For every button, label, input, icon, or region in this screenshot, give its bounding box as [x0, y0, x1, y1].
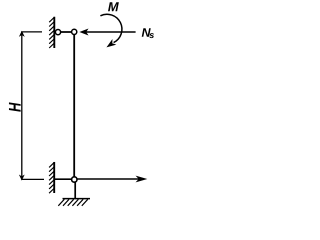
- dimension arrowhead up: [20, 31, 24, 36]
- label H (rotated): [9, 102, 21, 111]
- wire: vertical column member: [73, 32, 75, 179]
- bottom wall support line: [53, 162, 55, 193]
- label M: [108, 2, 119, 11]
- ground hatching: [58, 199, 88, 206]
- dimension top extension tick: [21, 31, 42, 33]
- ground line: [63, 198, 91, 200]
- reaction arrow (pointing right at base): [77, 176, 146, 181]
- moment arc M (clockwise arrow): [100, 14, 122, 46]
- force arrow N_s (pointing left at column top): [81, 29, 136, 34]
- wire: top horizontal link from wall to column top: [55, 31, 74, 33]
- bottom wall hatching: [49, 162, 54, 193]
- top wall support line: [53, 17, 55, 48]
- dimension line H (vertical with arrowheads): [21, 32, 44, 180]
- dimension arrowhead down: [20, 175, 24, 180]
- wire: bottom link from wall to pin: [55, 178, 75, 180]
- pin joint circle at column base: [72, 177, 77, 182]
- top wall hatching: [49, 17, 54, 48]
- wire: stub from base pin to ground: [74, 182, 76, 199]
- label N_s: [142, 28, 151, 37]
- dimension bottom extension tick: [21, 178, 44, 180]
- pin joint circle at column top: [72, 29, 77, 34]
- pin joint circle at wall (top left): [55, 29, 60, 34]
